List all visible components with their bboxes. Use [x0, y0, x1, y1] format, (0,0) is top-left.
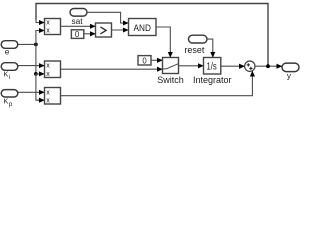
wire: e to junction — [18, 43, 36, 45]
svg-text:0: 0 — [75, 30, 80, 39]
svg-text:e: e — [5, 47, 10, 57]
sum block — [245, 61, 255, 71]
input port Ki — [1, 63, 18, 81]
wire: arrow into product P2 input 2 — [36, 73, 44, 75]
product P3 (multiply) — [45, 88, 61, 105]
wire: Kp to product P3 input 1 — [18, 91, 44, 93]
wire: sat to AND input 1 — [87, 12, 128, 23]
svg-text:i: i — [9, 75, 10, 81]
svg-text:x: x — [46, 97, 50, 104]
svg-text:x: x — [46, 71, 50, 78]
wire: e down to product P3 input 2 — [36, 74, 44, 100]
svg-text:AND: AND — [134, 23, 152, 33]
wire: switch output to integrator input — [179, 65, 204, 67]
wire: integrator output to sum input — [221, 65, 245, 67]
source block sat — [70, 9, 87, 27]
relational operator > — [96, 23, 112, 37]
input port e — [1, 41, 18, 57]
wire: sum output to output port y — [255, 65, 282, 67]
product P1 (multiply) — [45, 19, 61, 35]
junction: output node y — [266, 64, 270, 68]
junction: node e lower — [34, 72, 38, 76]
constant 0 (upper) — [71, 30, 83, 39]
wire: constant 0 to switch input 1 — [151, 59, 162, 61]
wire: feedback from output junction up, across top, down to product P1 input 1 — [36, 4, 268, 67]
integrator block 1/s — [193, 58, 232, 86]
wire: reset to integrator reset input — [207, 39, 213, 57]
svg-text:reset: reset — [184, 45, 205, 55]
output port y — [282, 63, 299, 81]
wire: relational operator output to AND input 2 — [112, 29, 129, 31]
wire: product P3 output to sum bottom input — [61, 71, 253, 96]
wire: Ki to product P2 input 1 — [18, 65, 44, 67]
input port reset — [184, 35, 207, 55]
logic block AND — [129, 19, 157, 36]
svg-text:x: x — [46, 20, 50, 27]
svg-text:Integrator: Integrator — [193, 75, 232, 85]
svg-text:x: x — [46, 89, 50, 96]
svg-text:x: x — [46, 63, 50, 70]
wire: constant 0 to relational operator input 2 — [84, 33, 95, 35]
wire: AND output to switch control input — [156, 27, 170, 57]
svg-text:0: 0 — [142, 56, 147, 65]
switch block — [157, 58, 184, 86]
wire: e down to product P2 input 2 — [35, 44, 37, 74]
svg-text:K: K — [4, 70, 9, 79]
svg-text:sat: sat — [71, 16, 83, 26]
input port Kp — [1, 90, 18, 108]
wire: e up to product P1 input 2 — [36, 31, 44, 45]
product P2 (multiply) — [45, 61, 61, 78]
svg-text:K: K — [4, 97, 9, 106]
junction: node e — [34, 43, 38, 47]
wire: product P1 output to relational operator input 1 — [61, 25, 96, 27]
constant 0 (lower) — [138, 56, 151, 66]
svg-text:1/s: 1/s — [207, 61, 217, 72]
svg-text:Switch: Switch — [157, 75, 184, 85]
svg-text:x: x — [46, 28, 50, 35]
wire: product P2 output to switch input 3 — [61, 68, 163, 70]
